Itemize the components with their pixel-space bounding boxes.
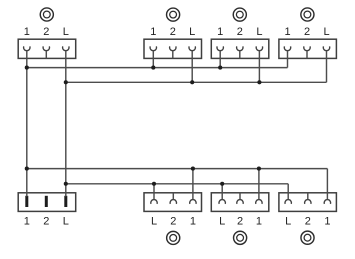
svg-text:2: 2 (237, 26, 243, 38)
wire net 1: riser X2-1 to top bus (152, 58, 154, 67)
svg-text:L: L (323, 26, 329, 38)
terminal block X4 body (279, 39, 337, 58)
junction net 1 at X5-1 trunk / bottom bus (25, 167, 29, 171)
spring-cage terminal X1-L (63, 46, 69, 58)
junction net L at X3-L riser / top bus (257, 80, 261, 84)
svg-text:L: L (63, 216, 69, 228)
terminal block X2 body (144, 39, 202, 58)
spring-cage terminal X8-1 (324, 193, 330, 204)
svg-text:1: 1 (284, 26, 290, 38)
svg-text:1: 1 (324, 216, 330, 228)
spring-cage terminal X3-1 (217, 46, 223, 58)
wire net 1: left trunk from X1-1 down to X5-1 (26, 58, 28, 196)
wire net L: left trunk from X1-L down to X5-L (65, 58, 67, 196)
spring-cage terminal X6-2 (170, 193, 176, 204)
spring-cage terminal X3-L (256, 46, 262, 58)
svg-text:L: L (151, 216, 157, 228)
wire net L: drop from bottom bus to X6-L (153, 184, 155, 193)
spring-cage terminal X6-1 (190, 193, 196, 204)
conductor entry opening below terminal block X8 (301, 231, 314, 244)
svg-text:2: 2 (305, 216, 311, 228)
spring-cage terminal X7-2 (237, 193, 243, 204)
spring-cage terminal X2-2 (170, 46, 176, 58)
spring-cage terminal X2-L (189, 46, 195, 58)
svg-text:L: L (219, 216, 225, 228)
svg-text:1: 1 (190, 216, 196, 228)
spring-cage terminal X4-1 (284, 46, 290, 58)
spring-cage terminal X8-2 (305, 193, 311, 204)
svg-text:2: 2 (43, 216, 49, 228)
terminal block X5 body (18, 193, 75, 212)
conductor entry opening above terminal block X3 (233, 8, 246, 21)
svg-text:1: 1 (24, 26, 30, 38)
spring-cage terminal X7-L (219, 193, 225, 204)
junction net L at X6-L drop / bottom bus (152, 182, 156, 186)
junction net 1 at X1-1 trunk / top bus (25, 66, 29, 70)
svg-text:2: 2 (237, 216, 243, 228)
svg-text:L: L (256, 26, 262, 38)
junction net L at X7-L drop / bottom bus (220, 182, 224, 186)
junction net 1 at X2-1 riser / top bus (151, 66, 155, 70)
conductor entry opening below terminal block X6 (167, 231, 180, 244)
svg-text:2: 2 (43, 26, 49, 38)
svg-text:1: 1 (256, 216, 262, 228)
spring-cage terminal X4-L (323, 46, 329, 58)
wire net 1: drop from bottom bus to X6-1 (192, 169, 194, 193)
junction net L at X2-L riser / top bus (190, 80, 194, 84)
svg-text:2: 2 (170, 26, 176, 38)
spring-cage terminal X2-1 (150, 46, 156, 58)
wire net 1: riser X4-1 to top bus (287, 58, 289, 67)
spring-cage terminal X7-1 (256, 193, 262, 204)
junction net 1 at X7-1 drop / bottom bus (257, 167, 261, 171)
wire net L: riser X3-L to top bus (258, 58, 260, 82)
spring-cage terminal X1-2 (43, 46, 49, 58)
conductor entry opening above terminal block X1 (40, 8, 53, 21)
svg-text:L: L (285, 216, 291, 228)
wire net L: riser X4-L to top bus (326, 58, 328, 82)
plug pin terminal X5-2 (45, 196, 48, 207)
wire net 1: drop from bottom bus to X8-1 (326, 169, 328, 193)
junction net L at X1-L trunk / top bus (64, 80, 68, 84)
wire net L: drop from bottom bus to X7-L (221, 184, 223, 193)
wire net L: bottom bus from X5-L to X8-L drop (66, 183, 288, 185)
plug pin terminal X5-L (64, 196, 67, 207)
wire net 1: drop from bottom bus to X7-1 (258, 169, 260, 193)
svg-text:1: 1 (24, 216, 30, 228)
svg-text:2: 2 (170, 216, 176, 228)
spring-cage terminal X6-L (151, 193, 157, 204)
wire net 1: bottom bus from X5-1 to X8-1 drop (27, 168, 328, 170)
terminal block X3 body (211, 39, 268, 58)
wire net L: top bus from X1-L to X4-L riser (66, 81, 327, 83)
junction net L at X5-L trunk / bottom bus (64, 182, 68, 186)
junction net 1 at X6-1 drop / bottom bus (191, 167, 195, 171)
wire net 1: riser X3-1 to top bus (219, 58, 221, 67)
plug pin terminal X5-1 (25, 196, 28, 207)
conductor entry opening above terminal block X2 (167, 8, 180, 21)
spring-cage terminal X4-2 (304, 46, 310, 58)
wire net L: drop from bottom bus to X8-L (287, 184, 289, 193)
terminal block X7 body (211, 193, 268, 212)
wire net 1: top bus from X1-1 to X4-1 riser (27, 67, 288, 69)
conductor entry opening above terminal block X4 (301, 8, 314, 21)
svg-text:2: 2 (304, 26, 310, 38)
spring-cage terminal X3-2 (237, 46, 243, 58)
svg-text:L: L (189, 26, 195, 38)
terminal block X8 body (279, 193, 337, 212)
svg-text:L: L (63, 26, 69, 38)
terminal block X1 body (18, 39, 75, 58)
svg-text:1: 1 (217, 26, 223, 38)
svg-text:1: 1 (150, 26, 156, 38)
wire net L: riser X2-L to top bus (191, 58, 193, 82)
terminal block X6 body (144, 193, 202, 212)
junction net 1 at X3-1 riser / top bus (218, 66, 222, 70)
spring-cage terminal X1-1 (24, 46, 30, 58)
spring-cage terminal X8-L (285, 193, 291, 204)
conductor entry opening below terminal block X7 (234, 231, 247, 244)
